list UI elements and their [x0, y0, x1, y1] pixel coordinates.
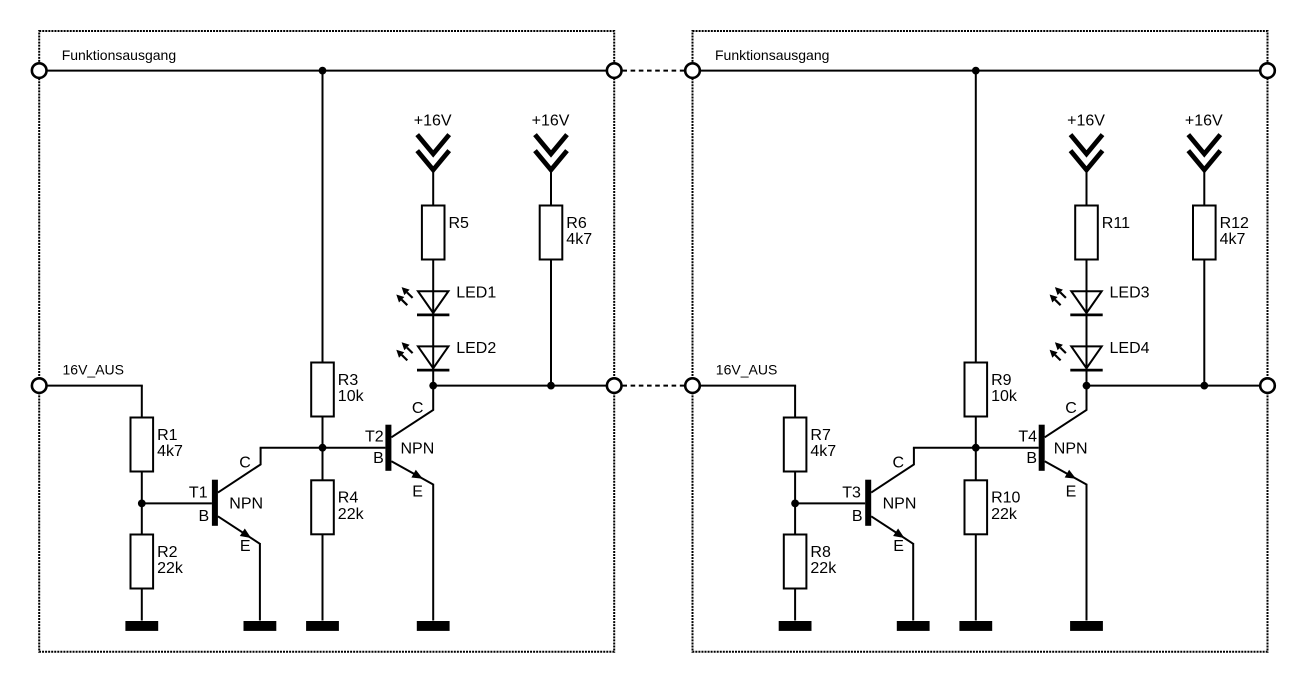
label T2 [365, 428, 384, 445]
label NPN (T2) [401, 441, 435, 458]
LED LED2 [396, 342, 449, 370]
pin label B (T3 base) [852, 508, 863, 525]
svg-text:22k: 22k [157, 560, 184, 577]
net label Funktionsausgang (module 2) [715, 47, 829, 63]
svg-text:LED1: LED1 [456, 285, 496, 302]
label LED2 [456, 340, 496, 357]
terminal pad 16V_AUS left (module 2) [685, 378, 700, 393]
junction R9/R10/T4 base node (module 2) [972, 444, 980, 452]
junction R3 column / Funktionsausgang bus (module 1) [319, 67, 327, 75]
label LED1 [456, 285, 496, 302]
junction R9 column / Funktionsausgang bus (module 2) [972, 67, 980, 75]
svg-text:R11: R11 [1102, 215, 1130, 232]
power +16V supply above R5 (module 1) [417, 135, 449, 170]
wire T3 emitter to ground (module 2) [912, 543, 914, 621]
label R12 / 4k7 [1220, 215, 1249, 248]
svg-text:22k: 22k [338, 506, 365, 523]
wire Funktionsausgang bus (module 2) [693, 70, 1268, 72]
transistor T4 emitter lead with arrow [1045, 461, 1087, 484]
terminal pad Funktionsausgang right (module 1) [607, 63, 622, 78]
svg-text:4k7: 4k7 [1220, 231, 1246, 248]
junction R6 / mid bus node (module 1) [547, 382, 555, 390]
svg-text:10k: 10k [338, 388, 365, 405]
wire +16V through R11, LED3, LED4 to node (module 2) [1086, 168, 1088, 386]
wire R1/R2 column to ground (module 1) [141, 470, 143, 621]
ground symbol below R10 (module 2) [959, 621, 992, 631]
terminal pad 16V_AUS left (module 1) [32, 378, 47, 393]
svg-text:E: E [1066, 483, 1077, 500]
transistor T1 (NPN) base bar [212, 480, 218, 526]
svg-text:+16V: +16V [1185, 112, 1223, 129]
svg-text:LED2: LED2 [456, 340, 496, 357]
label +16V (R12 branch, module 2) [1185, 112, 1223, 129]
transistor T4 (NPN) base bar [1039, 425, 1045, 471]
label T1 [189, 484, 208, 501]
svg-text:LED3: LED3 [1110, 285, 1150, 302]
svg-text:Funktionsausgang: Funktionsausgang [715, 47, 829, 63]
svg-text:B: B [1026, 450, 1037, 467]
svg-text:NPN: NPN [883, 496, 917, 513]
svg-text:R9: R9 [991, 372, 1012, 389]
terminal pad mid bus right (module 1) [607, 378, 622, 393]
svg-text:E: E [893, 538, 904, 555]
svg-text:16V_AUS: 16V_AUS [63, 362, 124, 378]
wire T2 emitter to ground (module 1) [432, 484, 434, 621]
wire node to T3 base (module 2) [795, 502, 865, 504]
resistor R8 value 22k [784, 535, 807, 589]
label R11 [1102, 215, 1130, 232]
net label 16V_AUS (module 2) [716, 362, 777, 378]
resistor R11 [1075, 206, 1098, 260]
ground symbol below T2 emitter (module 1) [417, 621, 450, 631]
module module 1 boundary (dotted outline) [39, 31, 614, 652]
svg-text:NPN: NPN [229, 496, 263, 513]
wire R7/R8 column to ground (module 2) [794, 470, 796, 621]
pin label C (T3 collector) [893, 454, 905, 471]
terminal pad mid bus right (module 2) [1260, 378, 1275, 393]
svg-text:R1: R1 [157, 427, 178, 444]
resistor R10 value 22k [965, 480, 988, 534]
svg-text:R4: R4 [338, 490, 359, 507]
svg-text:B: B [373, 450, 384, 467]
svg-text:NPN: NPN [1054, 441, 1088, 458]
svg-text:C: C [1065, 400, 1077, 417]
label R3 / 10k [338, 372, 365, 405]
svg-text:R6: R6 [566, 215, 587, 232]
svg-text:R10: R10 [991, 490, 1020, 507]
svg-text:R2: R2 [157, 544, 178, 561]
transistor T1 collector lead [218, 448, 261, 493]
label R4 / 22k [338, 490, 365, 523]
label LED3 [1110, 285, 1150, 302]
junction LED2 cathode node (module 1) [429, 382, 437, 390]
pin label E (T1 emitter) [240, 538, 251, 555]
terminal pad Funktionsausgang left (module 2) [685, 63, 700, 78]
label T4 [1018, 428, 1037, 445]
svg-text:Funktionsausgang: Funktionsausgang [62, 47, 176, 63]
terminal pad Funktionsausgang right (module 2) [1260, 63, 1275, 78]
ground symbol below T4 emitter (module 2) [1070, 621, 1103, 631]
svg-text:C: C [893, 454, 905, 471]
resistor R6 value 4k7 [540, 206, 563, 260]
label +16V (R11 branch, module 2) [1067, 112, 1105, 129]
wire T1 collector to T2 base (module 1) [260, 447, 386, 449]
LED LED1 [396, 287, 449, 315]
resistor R2 value 22k [131, 535, 154, 589]
pin label B (T1 base) [199, 508, 210, 525]
svg-text:22k: 22k [991, 506, 1018, 523]
module module 2 boundary (dotted outline) [693, 31, 1268, 652]
svg-text:22k: 22k [810, 560, 837, 577]
transistor T4 collector lead [1045, 386, 1087, 438]
net label 16V_AUS (module 1) [63, 362, 124, 378]
LED LED4 [1050, 342, 1103, 370]
transistor T3 emitter lead with arrow [871, 516, 913, 544]
transistor T1 emitter lead with arrow [218, 516, 260, 544]
ground symbol below T3 emitter (module 2) [897, 621, 930, 631]
svg-text:R3: R3 [338, 372, 359, 389]
wire 16V_AUS (module 1) [39, 386, 143, 419]
label LED4 [1110, 340, 1150, 357]
wire Funktionsausgang bus (module 1) [39, 70, 614, 72]
label R1 / 4k7 [157, 427, 183, 460]
wire 16V_AUS (module 2) [693, 386, 797, 419]
wire R3/R4 column (module 1) [322, 71, 324, 621]
svg-text:C: C [412, 400, 424, 417]
wire +16V through R12 to node (module 2) [1203, 168, 1205, 386]
pin label B (T4 base) [1026, 450, 1037, 467]
terminal pad Funktionsausgang left (module 1) [32, 63, 47, 78]
resistor R7 value 4k7 [784, 418, 807, 472]
pin label E (T4 emitter) [1066, 483, 1077, 500]
power +16V supply above R6 (module 1) [535, 135, 567, 170]
wire dashed inter-module link (Funktionsausgang) [614, 70, 692, 72]
svg-text:10k: 10k [991, 388, 1018, 405]
wire T4 emitter to ground (module 2) [1086, 484, 1088, 621]
transistor T2 (NPN) base bar [385, 425, 391, 471]
label NPN (T3) [883, 496, 917, 513]
wire R9/R10 column (module 2) [975, 71, 977, 621]
svg-text:4k7: 4k7 [157, 443, 183, 460]
transistor T3 collector lead [871, 448, 914, 493]
label +16V (R6 branch, module 1) [532, 112, 570, 129]
svg-text:4k7: 4k7 [566, 231, 592, 248]
svg-text:T4: T4 [1018, 428, 1037, 445]
svg-text:E: E [412, 483, 423, 500]
power +16V supply above R12 (module 2) [1188, 135, 1220, 170]
junction R12 / mid bus node (module 2) [1200, 382, 1208, 390]
label R5 [449, 215, 470, 232]
resistor R4 value 22k [311, 480, 334, 534]
ground symbol below R8 (module 2) [779, 621, 812, 631]
label R9 / 10k [991, 372, 1018, 405]
label R8 / 22k [810, 544, 837, 577]
ground symbol below R2 (module 1) [125, 621, 158, 631]
svg-text:C: C [239, 454, 251, 471]
svg-text:R12: R12 [1220, 215, 1249, 232]
junction R3/R4/T2 base node (module 1) [319, 444, 327, 452]
pin label B (T2 base) [373, 450, 384, 467]
label T3 [842, 484, 861, 501]
resistor R3 value 10k [311, 363, 334, 417]
ground symbol below R4 (module 1) [306, 621, 339, 631]
pin label E (T3 emitter) [893, 538, 904, 555]
wire node to T1 base (module 1) [142, 502, 212, 504]
wire LED node to right terminal (module 2) [1087, 385, 1268, 387]
label R6 / 4k7 [566, 215, 592, 248]
svg-text:16V_AUS: 16V_AUS [716, 362, 777, 378]
resistor R5 [422, 206, 445, 260]
svg-text:R5: R5 [449, 215, 470, 232]
junction R1/R2/T1 base node (module 1) [138, 500, 146, 508]
svg-text:LED4: LED4 [1110, 340, 1150, 357]
wire dashed inter-module link (16V_AUS / mid bus) [614, 385, 692, 387]
pin label C (T1 collector) [239, 454, 251, 471]
LED LED3 [1050, 287, 1103, 315]
svg-text:NPN: NPN [401, 441, 435, 458]
svg-text:+16V: +16V [414, 112, 452, 129]
transistor T2 collector lead [391, 386, 433, 438]
resistor R12 value 4k7 [1193, 206, 1216, 260]
label NPN (T1) [229, 496, 263, 513]
resistor R9 value 10k [965, 363, 988, 417]
wire +16V through R5, LED1, LED2 to node (module 1) [432, 168, 434, 386]
junction LED4 cathode node (module 2) [1083, 382, 1091, 390]
svg-text:+16V: +16V [1067, 112, 1105, 129]
svg-text:B: B [852, 508, 863, 525]
junction R7/R8/T3 base node (module 2) [791, 500, 799, 508]
net label Funktionsausgang (module 1) [62, 47, 176, 63]
svg-text:B: B [199, 508, 210, 525]
wire T3 collector to T4 base (module 2) [913, 447, 1039, 449]
svg-text:+16V: +16V [532, 112, 570, 129]
svg-text:T2: T2 [365, 428, 384, 445]
pin label C (T4 collector) [1065, 400, 1077, 417]
svg-text:4k7: 4k7 [810, 443, 836, 460]
wire T1 emitter to ground (module 1) [259, 543, 261, 621]
wire +16V through R6 to node (module 1) [550, 168, 552, 386]
pin label E (T2 emitter) [412, 483, 423, 500]
resistor R1 value 4k7 [131, 418, 154, 472]
label R2 / 22k [157, 544, 184, 577]
svg-text:E: E [240, 538, 251, 555]
svg-text:R7: R7 [810, 427, 831, 444]
svg-text:R8: R8 [810, 544, 831, 561]
transistor T2 emitter lead with arrow [391, 461, 433, 484]
label NPN (T4) [1054, 441, 1088, 458]
ground symbol below T1 emitter (module 1) [244, 621, 277, 631]
transistor T3 (NPN) base bar [865, 480, 871, 526]
label R7 / 4k7 [810, 427, 836, 460]
wire LED node to right terminal (module 1) [433, 385, 614, 387]
svg-text:T3: T3 [842, 484, 861, 501]
svg-text:T1: T1 [189, 484, 208, 501]
label +16V (R5 branch, module 1) [414, 112, 452, 129]
pin label C (T2 collector) [412, 400, 424, 417]
label R10 / 22k [991, 490, 1020, 523]
power +16V supply above R11 (module 2) [1071, 135, 1103, 170]
